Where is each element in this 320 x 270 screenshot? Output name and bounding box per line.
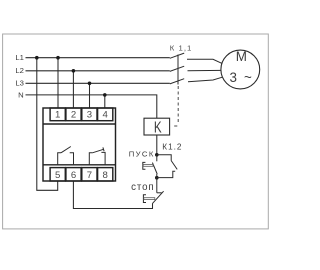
wire L2 drop to terminal 2 <box>72 71 74 108</box>
relay device outline <box>43 108 116 181</box>
svg-text:5: 5 <box>55 170 60 181</box>
wire L1 drop to terminal 5 (left loop) <box>37 58 58 191</box>
border frame <box>3 34 269 229</box>
svg-text:L3: L3 <box>15 79 24 88</box>
svg-text:~: ~ <box>244 70 252 85</box>
relay contact 7-8 (closed) <box>89 147 105 165</box>
junction dot L1-a <box>35 56 39 60</box>
wire N drop to terminal 4 <box>104 95 106 108</box>
contact K1.1 blade L2 <box>170 66 184 71</box>
svg-text:L2: L2 <box>15 66 24 75</box>
terminal box 7 <box>82 168 97 181</box>
terminal box 2 <box>66 108 81 121</box>
node A (junction above start button) <box>155 153 159 157</box>
device separator upper <box>43 123 116 125</box>
svg-text:L1: L1 <box>15 53 24 62</box>
wire L3 drop to terminal 3 <box>89 83 91 108</box>
wire coil K to node A <box>156 135 158 155</box>
svg-text:К1.2: К1.2 <box>162 143 182 152</box>
svg-text:К 1,1: К 1,1 <box>170 43 193 52</box>
wire to motor phase 3 <box>188 77 222 82</box>
mechanical link dashed to coil <box>177 86 179 122</box>
terminal box 6 <box>66 168 81 181</box>
svg-text:4: 4 <box>103 110 109 121</box>
contact K1.1 blade L3 <box>170 79 184 84</box>
svg-text:8: 8 <box>103 170 108 181</box>
wire L1 line <box>26 57 170 59</box>
junction dot L2 <box>72 69 76 73</box>
svg-text:1: 1 <box>55 110 60 121</box>
svg-text:стоп: стоп <box>131 182 154 193</box>
contact K1.1 link bar <box>177 55 179 85</box>
start button ПУСК (NO pushbutton) <box>143 155 157 178</box>
wire L3 line <box>26 82 170 84</box>
wire to motor phase 1 <box>187 59 222 63</box>
relay contact 5-6 (open) <box>58 147 74 166</box>
node B (junction below start button) <box>155 176 159 180</box>
terminal box 8 <box>98 168 113 181</box>
stop button стоп (NC pushbutton) <box>143 178 163 204</box>
wire L1 drop to terminal 1 <box>57 58 59 108</box>
svg-text:ПУСК: ПУСК <box>129 150 155 159</box>
svg-text:2: 2 <box>71 110 76 121</box>
svg-text:3: 3 <box>87 110 92 121</box>
svg-text:6: 6 <box>71 170 76 181</box>
svg-text:N: N <box>18 90 24 99</box>
junction dot N <box>103 93 107 97</box>
svg-text:7: 7 <box>87 170 92 181</box>
svg-text:K: K <box>154 117 162 135</box>
wire terminal 6 to stop button <box>73 181 152 209</box>
coil K box <box>144 118 170 135</box>
wire to motor phase 2 <box>188 69 221 71</box>
svg-text:M: M <box>236 49 247 64</box>
svg-text:3: 3 <box>230 70 237 85</box>
wire N line to coil K <box>26 95 157 118</box>
contact K1.1 blade L1 <box>170 53 184 58</box>
terminal box 1 <box>50 108 65 121</box>
junction dot L1-b <box>56 56 60 60</box>
junction dot L3 <box>88 82 92 86</box>
terminal box 4 <box>98 108 113 121</box>
contact K1.2 branch <box>157 155 177 178</box>
motor M1 circle <box>221 50 260 89</box>
terminal box 3 <box>82 108 97 121</box>
device separator lower <box>43 164 116 166</box>
terminal box 5 <box>50 168 65 181</box>
wire L2 line <box>26 70 170 72</box>
